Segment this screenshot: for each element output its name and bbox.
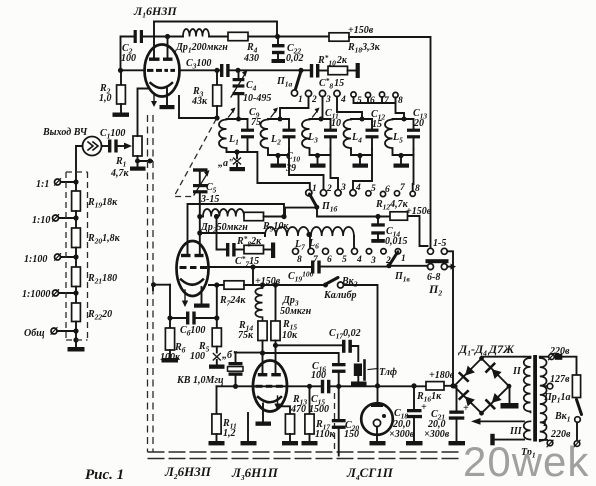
node grid left bbox=[151, 282, 156, 287]
contact 220v top bbox=[549, 354, 555, 360]
wire winding III bottom bbox=[495, 439, 524, 441]
ground (L2) bbox=[271, 156, 287, 168]
contact P2 1-5 left bbox=[428, 248, 434, 254]
node L5 bottom bbox=[398, 153, 403, 158]
svg-text:R724к: R724к bbox=[219, 295, 246, 308]
svg-text:50мкгн: 50мкгн bbox=[280, 306, 312, 317]
switch P1a lever bbox=[296, 71, 302, 89]
ground (L3 cathode) bbox=[256, 422, 272, 426]
wire anode node to quartz bbox=[236, 352, 263, 354]
wire divider bottom bbox=[75, 331, 77, 347]
ground (R6) bbox=[162, 358, 179, 363]
capacitor C10 39 plates bbox=[283, 119, 296, 150]
tank L2 coil bbox=[261, 120, 269, 150]
svg-text:1: 1 bbox=[298, 95, 303, 105]
contact P1v-7 bbox=[308, 248, 314, 254]
node 1:1000 bbox=[73, 290, 78, 295]
tank L4 coil bbox=[344, 120, 352, 150]
resistor R3 43k bbox=[213, 70, 222, 118]
svg-text:Сб100: Сб100 bbox=[180, 325, 205, 338]
tank L5 bottom wire bbox=[393, 149, 414, 155]
diode D3 bbox=[460, 391, 475, 406]
svg-text:43к: 43к bbox=[191, 96, 208, 107]
quartz KV 1,0Mgc bbox=[228, 353, 244, 387]
svg-text:220в: 220в bbox=[549, 346, 570, 357]
svg-text:+: + bbox=[463, 403, 469, 414]
tube L2 heater arrow bbox=[182, 290, 188, 307]
contact winding I bottom prong bbox=[547, 440, 553, 446]
wire C20 branch bbox=[338, 386, 340, 419]
wire winding I tap 127v bbox=[545, 385, 547, 387]
ground (C21) bbox=[449, 441, 466, 445]
trimmer x mark R5 bbox=[213, 354, 220, 361]
wire R1 bottom bbox=[138, 156, 153, 161]
transformer Tr1 winding II bbox=[524, 357, 531, 413]
svg-text:6: 6 bbox=[385, 185, 390, 195]
svg-text:2: 2 bbox=[326, 184, 332, 194]
capacitor C11 10 plates bbox=[324, 119, 337, 150]
wire L7 tap to contact 7 bbox=[309, 236, 311, 248]
wire R14 bottom to C16 bbox=[263, 353, 339, 363]
node R1 bottom right bbox=[148, 159, 153, 164]
svg-text:1:10: 1:10 bbox=[32, 215, 50, 226]
resistor R2 1,0 bbox=[117, 70, 126, 112]
svg-text:39: 39 bbox=[285, 163, 296, 174]
node P1v pivot bbox=[387, 263, 392, 268]
node divider bottom bbox=[73, 337, 78, 342]
svg-text:1: 1 bbox=[312, 184, 317, 194]
resistor R12 4,7k bbox=[317, 208, 408, 221]
node C3-R3 junction bbox=[214, 68, 219, 73]
wire grid line y=70.3 bbox=[121, 69, 311, 71]
plug bar top bbox=[555, 354, 563, 360]
resistor R19 18k bbox=[72, 182, 81, 218]
wire R7 right up to grid bbox=[252, 267, 254, 285]
diode D2 bbox=[486, 364, 501, 379]
svg-text:100: 100 bbox=[190, 351, 205, 362]
ground (L1 cathode) bbox=[160, 105, 175, 109]
ground (R13) bbox=[282, 441, 298, 445]
svg-text:Общ: Общ bbox=[24, 328, 45, 339]
svg-text:2: 2 bbox=[311, 95, 317, 105]
capacitor C9 75 plates bbox=[241, 119, 254, 150]
svg-text:1-5: 1-5 bbox=[433, 238, 446, 249]
capacitor C16 100 plates bbox=[332, 363, 346, 386]
tube L1 cathode arc bbox=[151, 83, 173, 88]
contact P1v-3 bbox=[366, 249, 371, 254]
capacitor C7 15 plates bbox=[217, 217, 245, 257]
wire winding I bottom tap bbox=[540, 439, 547, 441]
svg-text:+180в: +180в bbox=[429, 370, 455, 381]
svg-text:100к: 100к bbox=[160, 352, 181, 363]
contact Obshch bbox=[51, 328, 57, 334]
tank L3 coil bbox=[302, 120, 310, 150]
transformer Tr1 winding I bbox=[540, 357, 547, 442]
svg-text:С1100: С1100 bbox=[100, 128, 125, 141]
svg-text:3: 3 bbox=[340, 183, 346, 193]
contact P1a-1 bbox=[291, 90, 297, 96]
capacitor C8 15 plates bbox=[310, 64, 320, 78]
wire P2 right contact down to rectifier bbox=[447, 251, 453, 385]
contact P2 1-5 right bbox=[441, 248, 447, 254]
svg-text:3: 3 bbox=[325, 95, 331, 105]
svg-text:3: 3 bbox=[370, 256, 376, 266]
svg-text:0,015: 0,015 bbox=[385, 236, 408, 247]
terminal bar R8 right bbox=[271, 243, 275, 259]
svg-text:110к: 110к bbox=[315, 429, 335, 440]
svg-text:R183,3к: R183,3к bbox=[347, 42, 381, 55]
contact P1v-1 bbox=[395, 249, 400, 254]
inductor Dr1 200mkgn bbox=[183, 29, 209, 37]
wire to fuse bbox=[562, 357, 576, 375]
contact P1a-6 bbox=[365, 92, 370, 97]
wire R12 to rail bbox=[408, 216, 428, 246]
ground (L3 heater) bbox=[241, 441, 257, 445]
contact slashes (mains prongs) bbox=[547, 353, 580, 447]
contact P1v-2 bbox=[381, 249, 386, 254]
wire L6 end to contact 4 bbox=[353, 236, 355, 248]
dashed mechanical link diagonal bbox=[174, 119, 217, 197]
wire oscillator anode loop top bbox=[188, 204, 285, 255]
tube L3 cathode arc bbox=[258, 397, 281, 402]
svg-text:3-15: 3-15 bbox=[200, 194, 219, 205]
node C6 left bbox=[167, 315, 172, 320]
tank L4 bottom wire bbox=[351, 149, 372, 155]
tube L3 heater arrow bbox=[274, 396, 280, 410]
node P1b pivot bbox=[314, 205, 319, 210]
node arrow on rail bbox=[451, 264, 457, 270]
svg-text:+150в: +150в bbox=[406, 206, 432, 217]
wire contact4 to L4 tank bbox=[337, 97, 362, 119]
contact P1v-6 bbox=[323, 248, 329, 254]
node Obshch bbox=[73, 328, 78, 333]
wire bus to L5 tank bbox=[396, 103, 405, 119]
tank L1 coil bbox=[219, 120, 227, 150]
contact P1a-3 bbox=[319, 90, 325, 96]
switch P1b lever bbox=[310, 194, 317, 207]
svg-text:1,2: 1,2 bbox=[223, 428, 236, 439]
svg-text:127в: 127в bbox=[550, 374, 570, 385]
wire 1:10 tap bbox=[59, 217, 77, 219]
resistor R11 1,2 bbox=[212, 386, 221, 441]
resistor R20 1,8k bbox=[72, 218, 81, 257]
svg-text:4: 4 bbox=[355, 183, 361, 193]
resistor R10 2k bbox=[319, 66, 356, 74]
capacitor C21 20,0x300v electrolytic bbox=[449, 386, 465, 441]
wire L4 to contact 4 lower bbox=[353, 155, 372, 190]
tube U3 L3 6N1P envelope bbox=[253, 361, 287, 412]
ground (L2 cathode) bbox=[194, 304, 210, 308]
node C14 top bbox=[375, 214, 380, 219]
ground (C22) bbox=[272, 59, 286, 63]
ground (R1) bbox=[130, 161, 146, 171]
ground (L5) bbox=[394, 156, 410, 168]
resistor R13 470 bbox=[285, 414, 294, 441]
contact P1b-2 bbox=[320, 190, 326, 196]
capacitor C13 20 plates bbox=[407, 119, 420, 150]
ground (L3) bbox=[310, 156, 326, 168]
node L4 top bbox=[360, 117, 365, 122]
wire R18 to right rail bbox=[349, 37, 431, 248]
node Dr2 left bbox=[197, 214, 202, 219]
tank L3 top wire bbox=[310, 118, 331, 120]
resistor R5 100 bbox=[212, 328, 221, 353]
tube L1 heater arrow bbox=[151, 93, 157, 107]
node L3 top bbox=[319, 117, 324, 122]
node C15 right bbox=[307, 384, 312, 389]
svg-text:R910к: R910к bbox=[262, 221, 289, 234]
resistor R18 3,3k bbox=[329, 33, 349, 41]
contact P1b-4 bbox=[350, 190, 356, 196]
svg-text:III: III bbox=[509, 426, 523, 437]
node Vk2 pivot bbox=[323, 283, 328, 288]
svg-text:Др1200мкгн: Др1200мкгн bbox=[175, 42, 228, 55]
contact 220v bottom right prong bbox=[574, 441, 580, 447]
svg-text:1500: 1500 bbox=[309, 404, 329, 415]
svg-text:R21180: R21180 bbox=[87, 273, 117, 286]
inductor Dr3 50mkgn bbox=[255, 285, 262, 321]
node grid-P1a junction bbox=[298, 68, 303, 73]
pin labels P1b 1-8 bbox=[312, 183, 420, 195]
wire L5 to contact 8 lower bbox=[412, 155, 415, 190]
capacitor C3 100 plates bbox=[220, 64, 230, 77]
transformer Tr1 core bbox=[533, 355, 537, 442]
capacitor C20 150 plates bbox=[332, 419, 346, 456]
contact P1a-7 bbox=[379, 92, 384, 97]
svg-text:10-495: 10-495 bbox=[243, 93, 271, 104]
svg-text:0,02: 0,02 bbox=[286, 53, 304, 64]
svg-text:75: 75 bbox=[251, 117, 261, 128]
node coil line left bbox=[197, 230, 202, 235]
tank L5 coil bbox=[385, 120, 393, 150]
svg-text:Тлф: Тлф bbox=[379, 367, 397, 378]
wire L2 grid line bbox=[209, 266, 312, 268]
node R4-C22 junction bbox=[275, 34, 280, 39]
wire P2 lower-right stub bbox=[447, 266, 453, 268]
svg-text:1:100: 1:100 bbox=[24, 254, 47, 265]
node R15 bottom bbox=[273, 343, 278, 348]
svg-text:100: 100 bbox=[311, 370, 326, 381]
tube L3 anode plates bbox=[258, 373, 281, 376]
contact P1a-8 bbox=[393, 92, 398, 97]
svg-text:5: 5 bbox=[371, 184, 376, 194]
svg-text:75к: 75к bbox=[238, 330, 254, 341]
capacitor C2 plates bbox=[134, 30, 143, 43]
tank L1 trimmer x and tap a bbox=[234, 152, 241, 167]
capacitor C14 0,015 bbox=[371, 217, 385, 243]
svg-text:Л4СГ1П: Л4СГ1П bbox=[346, 465, 394, 482]
ground (R5) bbox=[209, 360, 225, 369]
ground (R2) bbox=[113, 113, 130, 117]
tube L2 grid dashes bbox=[180, 266, 208, 269]
tube L1 grid dashes bbox=[147, 69, 175, 72]
dashed box main left double line bbox=[148, 115, 154, 452]
tube L2 anode plates bbox=[181, 254, 204, 257]
wire Vk2 to down rail bbox=[344, 285, 378, 386]
svg-text:100: 100 bbox=[121, 53, 136, 64]
wire contact2 to L2 tank bbox=[280, 97, 309, 118]
svg-text:150: 150 bbox=[344, 429, 359, 440]
svg-text:4,7к: 4,7к bbox=[110, 168, 130, 179]
wire 1:1 tap bbox=[61, 181, 77, 183]
resistor R14 75k bbox=[258, 321, 267, 353]
tube U1 L1 6N3P envelope bbox=[145, 45, 180, 97]
svg-text:„б": „б" bbox=[222, 350, 238, 361]
switch Vk2 lever bbox=[325, 278, 338, 285]
node C6 right bbox=[214, 315, 219, 320]
tube L1 anode plates bbox=[149, 58, 173, 61]
node +150 R15 bbox=[273, 282, 278, 287]
tank L2 bottom wire bbox=[268, 149, 289, 155]
svg-text:Л36Н1П: Л36Н1П bbox=[231, 465, 279, 482]
connector Vykhod VCh bbox=[83, 137, 102, 156]
wire winding I top tap 220v bbox=[540, 356, 549, 358]
inductor L6 bbox=[311, 227, 354, 236]
node R1 bottom bbox=[135, 159, 140, 164]
capacitor C22 0,02 to ground bbox=[272, 37, 285, 60]
ground (L1) bbox=[230, 167, 246, 171]
tube L1 anode leads bbox=[154, 22, 168, 58]
wire P1v to P2 bbox=[389, 251, 428, 266]
wire winding II top bbox=[524, 356, 531, 358]
wire grid-b line with C6 bbox=[170, 285, 186, 328]
tube L4 anode bar bbox=[371, 386, 383, 407]
svg-text:+: + bbox=[421, 402, 427, 413]
tube L2 cathode arc bbox=[181, 280, 203, 285]
wire L3 to R13 bbox=[281, 406, 291, 414]
contact P1a-5 bbox=[351, 92, 356, 97]
tube U4 L4 SG1P envelope bbox=[361, 403, 393, 435]
node quartz bottom bbox=[233, 384, 238, 389]
svg-text:15: 15 bbox=[372, 119, 382, 130]
wire 1:1000 tap bbox=[59, 292, 77, 294]
pin labels P1v 8-1 bbox=[297, 254, 406, 266]
svg-text:1: 1 bbox=[401, 254, 406, 264]
tube L4 cathode ring bbox=[373, 419, 380, 426]
node grid-R7 junction bbox=[250, 264, 255, 269]
svg-text:20: 20 bbox=[413, 118, 424, 129]
capacitor C15 1500 plates bbox=[321, 380, 331, 394]
tank L3 trimmer arrow bbox=[313, 108, 320, 118]
inductor L7 bbox=[265, 227, 309, 236]
diode D1 bbox=[460, 366, 475, 381]
node L1 bottom bbox=[234, 149, 239, 154]
node bridge corners bbox=[452, 356, 512, 416]
contact 1:10 bbox=[53, 215, 59, 221]
svg-text:II: II bbox=[512, 366, 522, 377]
node 1:100 bbox=[73, 254, 78, 259]
contact P1b-3 bbox=[335, 190, 341, 196]
wire Vk1 down bbox=[576, 422, 578, 441]
node L2 bottom bbox=[275, 153, 280, 158]
diode D4 bbox=[486, 393, 501, 408]
wire R7-left down to R5 bbox=[216, 285, 218, 328]
capacitor C6 100 plates bbox=[186, 312, 217, 325]
pin labels P1a 1-8 bbox=[298, 95, 403, 106]
svg-text:6: 6 bbox=[327, 255, 332, 265]
dashed box divider bbox=[66, 172, 88, 340]
svg-text:4: 4 bbox=[356, 255, 362, 265]
tank L1 trimmer arrow bbox=[229, 108, 236, 118]
tank L2 top wire bbox=[268, 118, 289, 120]
dashed box main bottom double line bbox=[148, 452, 463, 459]
node L7-L6 junction bbox=[306, 232, 311, 237]
wire R15 bottom to C17 bbox=[276, 344, 343, 346]
contact P1b-7 bbox=[394, 191, 399, 196]
wire R1 top to tube L1 cathode circuit bbox=[138, 89, 149, 137]
transformer Tr1 winding III bbox=[524, 421, 531, 439]
svg-text:×300в: ×300в bbox=[389, 429, 415, 440]
capacitor C12 15 plates bbox=[366, 119, 379, 150]
resistor R9 10k bbox=[244, 212, 284, 220]
svg-text:4: 4 bbox=[340, 95, 346, 105]
switch Vk1 lever bbox=[577, 400, 582, 415]
contact P1b-8 bbox=[410, 191, 415, 196]
tank L5 top wire bbox=[393, 118, 414, 120]
svg-text:8: 8 bbox=[297, 255, 302, 265]
svg-text:430: 430 bbox=[243, 53, 259, 64]
tube U2 L2 6N3P envelope bbox=[177, 241, 209, 296]
svg-text:Пр11а: Пр11а bbox=[543, 392, 571, 405]
capacitor C18 20,0x300v electrolytic bbox=[407, 386, 423, 441]
contact slashes (divider taps) bbox=[51, 179, 61, 335]
wire L1 to contact 1 lower bbox=[248, 152, 310, 190]
node L3 bottom bbox=[315, 153, 320, 158]
switch P1v lever bbox=[390, 253, 398, 265]
svg-text:470: 470 bbox=[290, 404, 306, 415]
wire heterodyne coil line bbox=[200, 233, 265, 236]
node C7 top bbox=[214, 214, 219, 219]
ground (bridge) bbox=[501, 403, 519, 409]
svg-text:Рис. 1: Рис. 1 bbox=[85, 467, 124, 483]
tube L4 gas dot bbox=[382, 414, 386, 418]
svg-text:10к: 10к bbox=[282, 330, 298, 341]
wire C2 left down bbox=[121, 37, 134, 71]
contact P2 6-8 left bbox=[428, 264, 434, 270]
ground (L4) bbox=[370, 441, 386, 445]
svg-text:2: 2 bbox=[385, 256, 391, 266]
contact P1b-5 bbox=[366, 191, 371, 196]
resistor R4 430 bbox=[228, 32, 248, 40]
node L5 top bbox=[402, 117, 407, 122]
contact 127v bbox=[547, 383, 553, 389]
svg-text:5: 5 bbox=[342, 255, 347, 265]
node R7 left bbox=[214, 282, 219, 287]
resistor R16 1k bbox=[426, 382, 444, 390]
svg-text:1:1: 1:1 bbox=[36, 179, 49, 190]
wire bus contacts 5-8 bbox=[354, 97, 396, 103]
node R9 right bbox=[281, 214, 286, 219]
contact Vk2 bbox=[338, 282, 344, 288]
contact Vk1 bbox=[575, 417, 581, 423]
svg-text:R201,8к: R201,8к bbox=[87, 233, 121, 246]
contact 1:1000 bbox=[53, 290, 59, 296]
svg-text:Л16Н3П: Л16Н3П bbox=[133, 4, 177, 20]
svg-text:R124,7к: R124,7к bbox=[375, 199, 409, 212]
svg-text:С170,02: С170,02 bbox=[329, 328, 361, 341]
contact 1:1 bbox=[55, 179, 61, 185]
contact P1v-8 bbox=[293, 248, 299, 254]
svg-text:8: 8 bbox=[415, 184, 420, 194]
ground (L4) bbox=[353, 156, 369, 168]
wire grid left stub bbox=[153, 285, 170, 290]
switch P2 closed bar bbox=[426, 259, 449, 263]
svg-text:10: 10 bbox=[331, 118, 341, 129]
wire connector to divider chain bbox=[76, 146, 83, 182]
node quartz top bbox=[260, 350, 265, 355]
node B+ x414 bbox=[411, 383, 416, 388]
svg-text:1:1000: 1:1000 bbox=[22, 289, 50, 300]
